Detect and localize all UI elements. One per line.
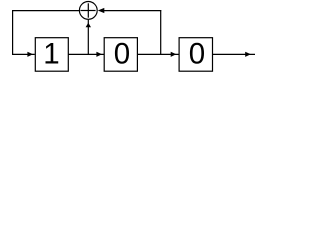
wire: right vertical tap (160, 10, 162, 54)
XOR plus horizontal stroke (80, 10, 95, 12)
arrowhead up into XOR (86, 23, 91, 28)
wire: top right feedback tap to XOR (104, 10, 161, 12)
wire: tap junction up to XOR input (vertical) (87, 20, 89, 55)
wire: stage 2 output to stage 3 (137, 53, 179, 55)
svg-text:0: 0 (114, 38, 130, 71)
wire: stage 1 output to stage 2 (68, 53, 104, 55)
svg-text:0: 0 (189, 38, 205, 71)
XOR plus vertical stroke (87, 3, 89, 17)
arrowhead into stage 1 (27, 52, 33, 57)
XOR adder circle (79, 2, 97, 20)
arrowhead into stage 2 (96, 52, 102, 57)
wire: into register stage 1 (12, 53, 35, 55)
wire: left vertical feedback (12, 10, 14, 54)
svg-text:1: 1 (43, 38, 59, 71)
register stage 2 box (104, 38, 137, 71)
register stage 1 box (35, 38, 68, 71)
arrowhead on output (245, 52, 251, 57)
arrowhead into XOR right input (98, 8, 105, 13)
wire: output from stage 3 (213, 53, 256, 55)
register stage 3 box (179, 38, 212, 71)
wire: top feedback from XOR output to left (12, 10, 80, 12)
arrowhead into stage 3 (171, 52, 177, 57)
